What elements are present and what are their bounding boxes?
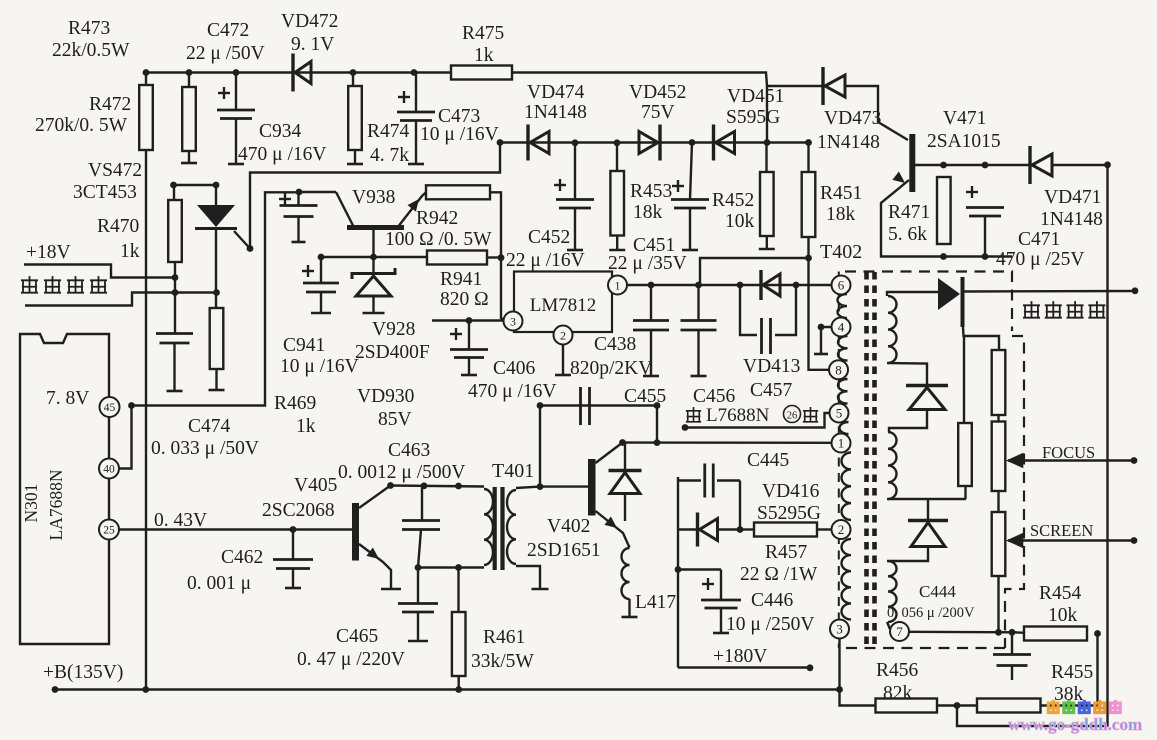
node V938 collector — [296, 189, 303, 196]
label V405 — [294, 475, 337, 496]
dashed pin line T402 — [838, 272, 840, 649]
label R941 value — [440, 289, 489, 310]
node C471 top — [982, 162, 989, 169]
label C451 value — [608, 253, 687, 274]
svg-text:2SA1015: 2SA1015 — [927, 131, 1001, 152]
wire base bus — [321, 256, 427, 258]
pin 40 — [99, 459, 119, 479]
svg-text:LA7688N: LA7688N — [46, 469, 66, 540]
svg-text:L417: L417 — [635, 592, 676, 613]
svg-text:R452: R452 — [712, 190, 754, 211]
svg-text:6: 6 — [838, 278, 845, 293]
label R457 — [765, 542, 808, 563]
label C455 — [624, 386, 666, 407]
svg-text:C465: C465 — [336, 626, 378, 647]
svg-text:22k/0.5W: 22k/0.5W — [52, 40, 130, 61]
watermark site name — [1047, 700, 1122, 713]
svg-text:10k: 10k — [725, 211, 755, 232]
wire bleeder top — [963, 327, 999, 350]
resistor R941 — [427, 251, 487, 265]
label C472 — [207, 20, 249, 41]
resistor R454 — [1024, 627, 1087, 641]
transformer T401 core — [493, 487, 505, 570]
label R454 value — [1048, 605, 1078, 626]
label R470 value — [120, 241, 140, 262]
label C462 — [221, 547, 263, 568]
svg-text:470 μ /16V: 470 μ /16V — [238, 144, 326, 165]
wire pin4 stub — [814, 324, 832, 354]
label R469 — [274, 393, 316, 414]
svg-text:R454: R454 — [1039, 583, 1082, 604]
label C463 — [388, 440, 430, 461]
wire collector to pin1 — [623, 441, 832, 444]
node R453 top — [614, 139, 621, 146]
svg-text:VD473: VD473 — [824, 108, 881, 129]
label VD474 — [527, 82, 585, 103]
pin 1 LM7812 — [608, 276, 627, 295]
wire R454 right drop — [1096, 634, 1098, 706]
label FOCUS — [1042, 443, 1095, 462]
resistor R471 — [937, 177, 951, 244]
node C471 bottom — [982, 253, 989, 260]
svg-text:10 μ /16V: 10 μ /16V — [280, 356, 359, 377]
svg-text:VD452: VD452 — [629, 82, 686, 103]
pin 7 T402 — [890, 622, 909, 641]
label R456 value — [883, 683, 913, 704]
svg-text:2: 2 — [560, 328, 566, 342]
svg-text:C452: C452 — [528, 227, 570, 248]
label C444 — [919, 582, 956, 601]
svg-text:V402: V402 — [547, 516, 590, 537]
resistor HV bleeder — [958, 423, 972, 486]
svg-text:R471: R471 — [888, 202, 930, 223]
label R471 value — [888, 224, 927, 245]
svg-text:10 μ /16V: 10 μ /16V — [420, 124, 499, 145]
label C934 — [259, 121, 302, 142]
label C474 — [188, 416, 231, 437]
wire V402 collector — [596, 443, 623, 464]
wire pin3 line — [432, 319, 504, 321]
node pin26 feed — [682, 424, 689, 431]
label VD452 value — [641, 102, 675, 123]
svg-text:V471: V471 — [943, 108, 986, 129]
wire lower rail — [418, 566, 484, 568]
svg-text:R456: R456 — [876, 660, 919, 681]
wire regulator output rail — [627, 284, 832, 286]
resistor R469 — [209, 308, 225, 390]
diode VD472 — [293, 54, 311, 92]
label V405 type — [262, 500, 335, 521]
node R456 right — [954, 702, 961, 709]
node C473 top — [411, 69, 418, 76]
wire pin5 link — [685, 413, 830, 428]
label R452 value — [725, 211, 755, 232]
svg-text:C455: C455 — [624, 386, 666, 407]
wire VD471 to right edge — [1052, 164, 1108, 166]
wire HV output line — [964, 290, 1135, 293]
label R452 — [712, 190, 754, 211]
transformer T402 core right — [872, 272, 877, 650]
node C463 top — [421, 482, 428, 489]
svg-text:75V: 75V — [641, 102, 675, 123]
node R457 left — [737, 526, 744, 533]
label VD930 — [357, 386, 414, 407]
wire C455 line — [540, 404, 657, 406]
label C445 — [747, 450, 789, 471]
svg-text:R451: R451 — [820, 183, 862, 204]
svg-text:5: 5 — [836, 406, 843, 421]
label R475 value — [474, 45, 494, 66]
damper diode V402 — [609, 443, 642, 522]
resistor R472 — [139, 73, 153, 151]
wire mid rail — [497, 141, 809, 143]
svg-text:0. 056 μ /200V: 0. 056 μ /200V — [887, 605, 975, 621]
node pin45 wire — [128, 402, 135, 409]
capacitor C455 — [581, 387, 590, 425]
wire V405 collector — [359, 486, 391, 509]
svg-text:V928: V928 — [372, 319, 415, 340]
pin 45 — [100, 397, 120, 417]
svg-text:3: 3 — [510, 314, 516, 328]
svg-text:25: 25 — [103, 525, 115, 537]
wire FOCUS line — [1006, 453, 1134, 468]
label VD471 value — [1040, 209, 1103, 230]
wire VS472 gate — [234, 231, 250, 249]
wire screen chain drop — [997, 576, 999, 632]
label R451 — [820, 183, 862, 204]
resistor R475 — [451, 66, 512, 80]
svg-text:1: 1 — [838, 436, 845, 451]
zener V928 — [352, 257, 395, 313]
label V402 — [547, 516, 590, 537]
label C474 value — [151, 438, 259, 459]
resistor screen pot — [992, 512, 1006, 576]
thyristor VS472 anode wire — [174, 184, 217, 186]
label T402 — [820, 241, 862, 263]
svg-text:C457: C457 — [750, 380, 793, 401]
node R454 right — [1094, 630, 1101, 637]
node R451 top — [805, 139, 812, 146]
svg-text:1N4148: 1N4148 — [817, 132, 880, 153]
svg-text:+18V: +18V — [26, 242, 71, 263]
label R451 value — [826, 204, 856, 225]
label C452 — [528, 227, 570, 248]
svg-text:VD451: VD451 — [727, 86, 784, 107]
wire R452 up-link — [766, 86, 768, 143]
pin 25 — [99, 520, 119, 540]
svg-text:0. 033 μ /50V: 0. 033 μ /50V — [151, 438, 259, 459]
svg-text:470 μ /16V: 470 μ /16V — [468, 381, 556, 402]
label R453 value — [633, 202, 663, 223]
label C462 value — [187, 573, 251, 594]
label C406 value — [468, 381, 556, 402]
svg-text:VS472: VS472 — [88, 160, 142, 181]
wire A2 feed — [963, 336, 965, 423]
svg-text:9. 1V: 9. 1V — [291, 34, 334, 55]
svg-text:C472: C472 — [207, 20, 249, 41]
pin 5 T402 — [830, 404, 849, 423]
pin 8 T402 — [829, 360, 848, 379]
node V938 base — [370, 254, 377, 261]
label VD413 — [743, 356, 800, 377]
label to L7688N pin26 — [686, 405, 818, 426]
node C438 top — [648, 282, 655, 289]
resistor R474 — [347, 73, 363, 165]
svg-text:22 μ /50V: 22 μ /50V — [186, 43, 265, 64]
svg-text:C444: C444 — [919, 582, 956, 601]
svg-text:4. 7k: 4. 7k — [370, 145, 409, 166]
label R461 — [483, 627, 525, 648]
node control mid junction — [172, 289, 179, 296]
resistor R453 — [609, 143, 625, 251]
svg-text:R470: R470 — [97, 216, 139, 237]
diode VD471 — [1030, 146, 1052, 184]
label C473 value — [420, 124, 499, 145]
label C444 value — [887, 605, 975, 621]
diode VD413 — [761, 270, 780, 300]
svg-text:R472: R472 — [89, 94, 131, 115]
diode VD474 — [528, 125, 549, 161]
diode VD416 — [698, 513, 718, 547]
label V402 type — [527, 540, 601, 561]
svg-text:T401: T401 — [492, 460, 534, 482]
dashed box outline — [840, 272, 1024, 649]
label T401 — [492, 460, 534, 482]
capacitor C457 — [740, 285, 796, 354]
svg-text:R455: R455 — [1051, 662, 1093, 683]
label VD473 — [824, 108, 881, 129]
svg-text:820 Ω: 820 Ω — [440, 289, 489, 310]
label 7.8V — [46, 388, 89, 409]
svg-text:4: 4 — [838, 320, 845, 335]
diode HV low — [908, 521, 948, 547]
svg-text:S595G: S595G — [726, 107, 780, 128]
wire +B bus — [55, 688, 840, 690]
label V938 — [352, 187, 395, 208]
node HV output end — [1132, 287, 1139, 294]
capacitor C465 — [398, 568, 438, 642]
wire diode to winding2 — [889, 410, 927, 432]
label R461 value — [471, 651, 534, 672]
label R472 — [89, 94, 131, 115]
wire R455 right — [1041, 704, 1098, 706]
svg-text:C471: C471 — [1018, 229, 1060, 250]
svg-text:1k: 1k — [120, 241, 140, 262]
resistor R452 — [759, 143, 775, 250]
svg-text:S5295G: S5295G — [757, 503, 821, 524]
svg-text:26: 26 — [787, 411, 798, 422]
svg-text:8: 8 — [835, 362, 842, 377]
wire V402 base — [540, 485, 588, 487]
label C456 — [693, 386, 736, 407]
capacitor C934 — [279, 192, 318, 242]
wire pin2 stub — [555, 345, 571, 376]
svg-text:R942: R942 — [416, 208, 458, 229]
wire VD473 to V471 base — [845, 86, 908, 140]
label 0.43V — [154, 510, 207, 531]
label R455 value — [1054, 684, 1084, 705]
svg-text:FOCUS: FOCUS — [1042, 443, 1095, 462]
label VD471 — [1044, 187, 1101, 208]
svg-text:10 μ /250V: 10 μ /250V — [726, 614, 814, 635]
node V402 base rail — [537, 483, 544, 490]
label VD472 value — [291, 34, 334, 55]
svg-text:2SD1651: 2SD1651 — [527, 540, 601, 561]
label HV output (Chinese) — [1023, 301, 1105, 318]
node bus R461 — [455, 686, 462, 693]
svg-text:0. 47 μ /220V: 0. 47 μ /220V — [297, 649, 405, 670]
svg-text:7. 8V: 7. 8V — [46, 388, 89, 409]
resistor R942 — [426, 185, 490, 199]
resistor focus upper — [992, 350, 1006, 415]
node C451 top — [689, 139, 696, 146]
node R941 right — [498, 254, 505, 261]
node R471 top — [940, 162, 947, 169]
label C438 value — [570, 358, 652, 379]
watermark url — [1008, 715, 1142, 734]
label VS472 — [88, 160, 142, 181]
node SCREEN end — [1131, 537, 1138, 544]
wire VD416 cathode — [718, 528, 741, 530]
wire diode3 drop — [927, 499, 929, 520]
resistor R470 — [168, 185, 182, 278]
label V471 type — [927, 131, 1001, 152]
label VD474 value — [524, 102, 587, 123]
transformer HV winding 3 — [888, 561, 897, 622]
wire to R457 — [740, 528, 754, 530]
label R455 — [1051, 662, 1093, 683]
wire V938 base lead — [372, 230, 374, 257]
svg-text:T402: T402 — [820, 241, 862, 263]
HV rectifier diode — [938, 277, 963, 327]
label C452 value — [506, 250, 585, 271]
wire winding3 to pin7 — [887, 622, 890, 629]
wire +18V feed — [24, 265, 175, 278]
node VD413 right — [793, 282, 800, 289]
node link-R451 — [805, 255, 812, 262]
svg-text:R473: R473 — [68, 18, 110, 39]
svg-text:22 μ /35V: 22 μ /35V — [608, 253, 687, 274]
svg-text:0. 0012 μ /500V: 0. 0012 μ /500V — [338, 462, 465, 483]
label +18V — [26, 242, 71, 263]
label R456 — [876, 660, 919, 681]
diode VD452 — [639, 125, 660, 161]
node +180V end — [807, 664, 814, 671]
resistor R456 — [876, 699, 938, 713]
node bus x146 — [142, 686, 149, 693]
label C934 value — [238, 144, 326, 165]
resistor R461 — [452, 568, 466, 690]
label R471 — [888, 202, 930, 223]
svg-text:10k: 10k — [1048, 605, 1078, 626]
wire V471 collector line — [915, 164, 1029, 166]
wire R456-R455 — [937, 704, 977, 706]
label R475 — [462, 23, 504, 44]
svg-text:R941: R941 — [440, 269, 482, 290]
wire pin3 drop — [838, 639, 840, 690]
label C473 — [438, 106, 480, 127]
label C446 value — [726, 614, 814, 635]
wire R454 left — [1012, 631, 1024, 634]
svg-text:1k: 1k — [296, 416, 316, 437]
capacitor C444 — [993, 632, 1031, 680]
label C465 value — [297, 649, 405, 670]
svg-text:LM7812: LM7812 — [530, 295, 597, 316]
svg-text:82k: 82k — [883, 683, 913, 704]
capacitor C406 — [450, 321, 488, 376]
wire V938 emitter — [399, 192, 426, 225]
wire pin45 feed — [132, 192, 300, 405]
node C465 top — [415, 564, 422, 571]
wire top +B rail — [146, 73, 822, 87]
pin 4 T402 — [832, 318, 851, 337]
label V928 type — [355, 342, 430, 363]
label VD416 type — [757, 503, 821, 524]
node R474 top — [350, 69, 357, 76]
wire gate to mid-rail link — [250, 143, 500, 249]
capacitor C473 — [397, 73, 435, 165]
node R473b top — [186, 69, 193, 76]
node R452 top — [764, 139, 771, 146]
svg-text:R474: R474 — [367, 121, 410, 142]
wire VD416 anode — [678, 528, 698, 530]
capacitor C474 — [156, 293, 193, 392]
transistor V471 bar — [909, 134, 915, 192]
svg-text:1: 1 — [615, 278, 621, 292]
svg-text:C456: C456 — [693, 386, 736, 407]
pin 3 T402 — [830, 620, 849, 639]
wire HV top lead — [887, 292, 938, 296]
svg-text:1N4148: 1N4148 — [1040, 209, 1103, 230]
label C472 value — [186, 43, 265, 64]
capacitor C471 — [966, 186, 1004, 257]
wire right edge vertical — [1106, 165, 1108, 727]
label R941 — [440, 269, 482, 290]
capacitor C445 — [678, 464, 740, 498]
svg-text:R475: R475 — [462, 23, 504, 44]
svg-text:1N4148: 1N4148 — [524, 102, 587, 123]
IC N301 LA7688N box — [20, 334, 109, 644]
wire R942 to regulator input — [490, 192, 505, 321]
transistor V938 bar — [347, 225, 404, 230]
wire C455 right drop — [656, 406, 658, 443]
label C941 value — [280, 356, 359, 377]
resistor R473 — [181, 73, 197, 164]
wire V471 emitter — [881, 172, 1012, 257]
wire V405 emitter — [359, 544, 401, 589]
wire HV winding1 bottom — [887, 363, 927, 386]
transformer T401 primary coil — [484, 489, 493, 565]
svg-text:3CT453: 3CT453 — [73, 182, 137, 203]
transformer T402 primary coil 2-3 — [842, 539, 852, 619]
label V928 — [372, 319, 415, 340]
thyristor VS472 — [195, 185, 237, 308]
transformer T402 primary coil 1-2 — [842, 453, 852, 521]
node R470 top — [170, 182, 177, 189]
capacitor C452 — [554, 143, 594, 251]
label +180V — [713, 646, 767, 667]
transformer T402 primary coil 6-4 — [838, 294, 848, 318]
node FOCUS end — [1131, 457, 1138, 464]
svg-text:L7688N: L7688N — [706, 405, 770, 426]
regulator LM7812 box — [514, 272, 612, 333]
pin 2 LM7812 — [554, 326, 573, 345]
node T401-R461 top — [455, 483, 462, 490]
label control circuit (Chinese) — [21, 276, 107, 293]
pin 3 LM7812 — [504, 312, 523, 331]
svg-text:820p/2KV: 820p/2KV — [570, 358, 652, 379]
svg-text:C474: C474 — [188, 416, 231, 437]
